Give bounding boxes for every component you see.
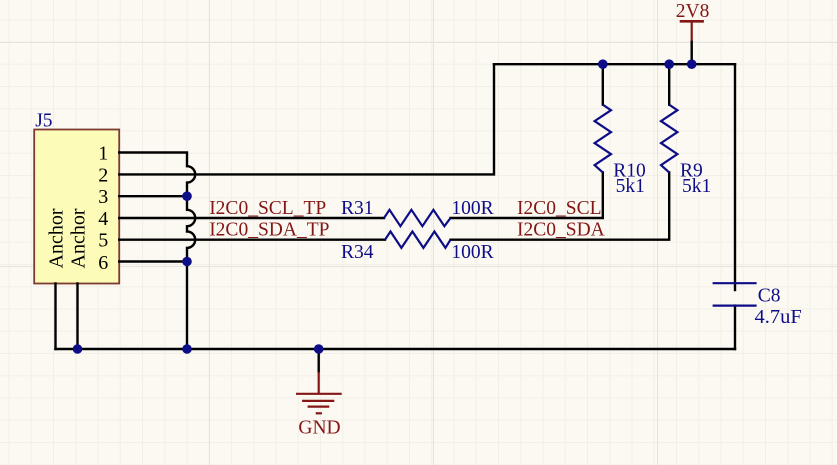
- svg-text:Anchor: Anchor: [68, 208, 90, 268]
- svg-text:5: 5: [98, 230, 108, 252]
- svg-text:6: 6: [98, 252, 108, 274]
- svg-text:4: 4: [98, 208, 108, 230]
- svg-text:Anchor: Anchor: [46, 208, 68, 268]
- svg-text:4.7uF: 4.7uF: [755, 306, 802, 328]
- svg-text:I2C0_SCL: I2C0_SCL: [517, 198, 602, 219]
- svg-text:R34: R34: [341, 242, 374, 263]
- svg-text:I2C0_SDA_TP: I2C0_SDA_TP: [209, 220, 329, 241]
- svg-text:J5: J5: [35, 110, 52, 131]
- svg-text:GND: GND: [298, 418, 340, 439]
- svg-text:3: 3: [98, 186, 108, 208]
- svg-text:1: 1: [98, 142, 108, 164]
- svg-text:2V8: 2V8: [676, 1, 710, 22]
- svg-text:5k1: 5k1: [616, 176, 645, 197]
- svg-text:100R: 100R: [451, 242, 493, 263]
- svg-text:5k1: 5k1: [682, 176, 711, 197]
- svg-text:I2C0_SCL_TP: I2C0_SCL_TP: [209, 198, 326, 219]
- svg-text:100R: 100R: [451, 198, 493, 219]
- svg-text:C8: C8: [758, 285, 781, 306]
- svg-text:R31: R31: [341, 198, 374, 219]
- svg-text:2: 2: [98, 164, 108, 186]
- svg-text:I2C0_SDA: I2C0_SDA: [517, 220, 605, 241]
